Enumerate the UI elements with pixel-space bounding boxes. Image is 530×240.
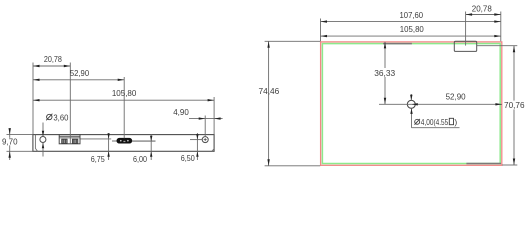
arrows 9,70 outside	[9, 128, 11, 135]
arrows dia 3,60	[42, 131, 44, 137]
arrows 74,46	[267, 41, 269, 48]
dim line 36,33	[384, 42, 386, 104]
diameter symbol 4,00	[415, 119, 420, 124]
dim line 52,90 right view	[411, 103, 502, 105]
ext line top left	[320, 19, 322, 42]
svg-text:52,90: 52,90	[446, 92, 466, 102]
svg-text:74,46: 74,46	[259, 86, 280, 96]
leader line dia 3,60 lower	[42, 143, 44, 157]
svg-text:52,90: 52,90	[70, 68, 89, 78]
board outline green	[322, 44, 500, 164]
arrows 4,90 outside	[199, 117, 206, 119]
right hole	[202, 137, 208, 143]
arrows dia 4,00 leader	[410, 95, 412, 101]
right bottom chamfer	[212, 149, 214, 152]
svg-text:9,70: 9,70	[2, 137, 18, 147]
dim 6,50 ext line	[190, 139, 202, 141]
svg-text:20,78: 20,78	[44, 54, 62, 64]
dim 9,70 ext top	[7, 134, 33, 136]
left inner step line	[35, 135, 37, 151]
arrows 52,90 right view	[411, 103, 418, 105]
dim 74,46 ext bottom	[265, 165, 321, 167]
dim line 52,90	[33, 79, 124, 81]
left hole	[40, 137, 46, 143]
ext line left edge	[32, 63, 34, 135]
leader dia 4,00 vertical	[411, 108, 413, 127]
dim 6,00 line	[150, 135, 152, 161]
slot middle mark	[123, 141, 125, 142]
connector top view	[454, 41, 476, 51]
arrows 20,78	[33, 65, 40, 67]
hole crosshair vertical upper	[410, 94, 412, 100]
svg-text:105,80: 105,80	[112, 88, 137, 98]
svg-text:36,33: 36,33	[374, 68, 395, 78]
dim 6,00 ext line	[132, 140, 156, 142]
connector pad left	[62, 139, 67, 143]
dim 70,76 ext bottom	[502, 164, 517, 166]
top edge gray segment	[383, 43, 412, 45]
tofu box glyph	[449, 118, 453, 124]
ext line connector center	[465, 12, 467, 46]
dim 74,46 ext top	[265, 40, 321, 42]
dim line 4,90	[189, 118, 223, 120]
svg-text:): )	[454, 117, 457, 127]
connector pad right	[72, 139, 77, 143]
connector inner line 2	[59, 137, 80, 139]
bottom edge gray segment	[466, 163, 501, 165]
leader line dia 3,60	[42, 123, 44, 137]
dim 6,75 ext line	[81, 138, 112, 140]
svg-text:6,50: 6,50	[181, 153, 195, 163]
ext line right edge	[213, 97, 215, 134]
dim 36,33 ext bottom	[379, 103, 411, 105]
dim line 20,78 right	[466, 14, 501, 16]
arrows 105,80	[33, 99, 40, 101]
arrows 6,50	[196, 134, 198, 140]
dim 70,76 ext top	[477, 45, 517, 47]
board outline red	[321, 42, 502, 165]
dim line 20,78	[33, 65, 70, 67]
dim line 105,80 right	[321, 35, 501, 37]
svg-text:105,80: 105,80	[400, 24, 424, 34]
text bg 9,70	[1, 138, 19, 146]
slot center line	[112, 140, 156, 142]
slot connector black body	[117, 138, 132, 143]
dim 6,50 line	[196, 133, 198, 160]
connector inner line 1	[59, 135, 80, 137]
svg-text:4,90: 4,90	[173, 107, 189, 117]
arrows 70,76	[513, 46, 515, 53]
connector side view body	[59, 135, 80, 144]
ext line right hole center vertical	[204, 116, 206, 137]
ext line connector center	[69, 63, 71, 144]
arrows 6,00	[150, 136, 152, 142]
arrows 107,60	[321, 20, 328, 22]
text bg 70,76	[504, 101, 526, 110]
dim 6,75 line	[108, 133, 110, 160]
dim line 107,60	[321, 21, 501, 23]
dim line 70,76	[513, 46, 515, 165]
center hole	[407, 100, 415, 108]
dim 9,70 line	[9, 129, 11, 161]
arrows 105,80 right	[321, 35, 328, 37]
ext line top right	[500, 12, 502, 42]
arrows 6,75	[107, 133, 109, 139]
leader dia 4,00 underline	[412, 127, 460, 129]
dim line 105,80	[33, 99, 214, 101]
diameter symbol 3,60	[47, 114, 52, 119]
ext line slot	[123, 77, 125, 138]
arrows 52,90	[33, 79, 40, 81]
svg-text:70,76: 70,76	[504, 100, 525, 110]
arrows 36,33	[384, 42, 386, 49]
svg-text:6,00: 6,00	[133, 154, 147, 164]
dim 9,70 ext bottom	[7, 150, 33, 152]
svg-text:3,60: 3,60	[53, 113, 68, 123]
text bg 36,33	[373, 68, 397, 77]
svg-text:20,78: 20,78	[472, 3, 492, 13]
svg-text:4,00(4.55: 4,00(4.55	[421, 117, 449, 127]
slot pin dot left	[120, 140, 122, 142]
svg-text:6,75: 6,75	[91, 154, 105, 164]
arrows 20,78 right	[466, 13, 473, 15]
svg-text:107,60: 107,60	[400, 10, 424, 20]
right hole center cross	[204, 138, 207, 141]
board side outline	[33, 135, 214, 152]
dim line 74,46	[268, 41, 270, 166]
slot pin dot right	[127, 140, 129, 142]
